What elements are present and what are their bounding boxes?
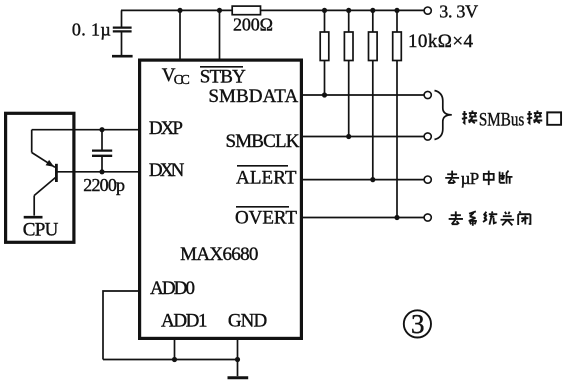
svg-text:ADD1: ADD1 [161,311,208,332]
terminal: OVERT [424,214,431,221]
ground (GND pin) [228,376,249,379]
char 断 [500,171,513,184]
junction: SMBDATA / R2 [322,92,327,97]
junction: rail to R4 [370,8,375,13]
wire: STBY drop to pin [219,10,221,59]
wire: SMBDATA to terminal [302,94,425,96]
svg-text:SMBCLK: SMBCLK [226,131,300,152]
resistor R1 200Ω (series in rail) [232,6,260,15]
junction: rail to R3 [346,8,351,13]
wire: DXN from Q1 base to pin [56,171,139,173]
resistor R2 10kΩ (pull-up SMBDATA) [320,10,329,95]
pin label ALERT (with overbar) [236,166,297,189]
svg-text:CPU: CPU [23,220,59,241]
svg-text:µP: µP [461,169,480,188]
label: 去系统关闭 (to system shutdown) [449,211,531,225]
wire: OVERT to terminal [302,217,425,219]
svg-text:3: 3 [411,309,425,339]
terminal: 3.3V [424,7,431,14]
wire: top supply rail right segment [261,9,425,11]
CPU box [6,113,74,242]
pin label VCC [162,65,190,87]
label: 接SMBus接口 (to SMBus interface) [462,110,561,131]
junction: ALERT / R4 [370,177,375,182]
char 关 [501,212,515,226]
char 系 [469,211,477,225]
char 口 [547,112,561,124]
wire: ADD1 drop [174,338,176,359]
junction: STBY tap on rail [217,8,222,13]
op-amp/IC U1 MAX6680 body [140,60,302,338]
svg-text:MAX6680: MAX6680 [180,244,258,265]
wire: ADD0 strap [103,291,140,360]
brace: SMBus port group [435,91,452,140]
pin label OVERT (with overbar) [235,207,297,229]
svg-text:10kΩ×4: 10kΩ×4 [408,31,474,52]
pin label STBY (with overbar) [200,67,246,88]
capacitor C2 2200p [92,130,112,172]
junction: C2 bottom on DXN [99,169,104,174]
svg-text:SMBus: SMBus [479,110,524,131]
junction: SMBCLK / R3 [346,134,351,139]
svg-text:200Ω: 200Ω [233,15,273,35]
wire: bottom strap rail [103,359,238,361]
svg-text:ADD0: ADD0 [150,278,195,299]
svg-text:DXP: DXP [149,118,183,139]
resistor R5 10kΩ (pull-up OVERT) [393,10,402,217]
junction: OVERT / R5 [394,215,399,220]
transistor Q1 (CPU thermal diode) [32,130,57,216]
ground (under C1) [112,55,133,58]
svg-text:STBY: STBY [200,67,246,88]
junction: rail to R2 [322,8,327,13]
wire: top supply rail left segment [121,9,232,11]
char 去 [445,171,459,183]
resistor R3 10kΩ (pull-up SMBCLK) [344,10,353,136]
wire: Vcc drop to pin [179,10,181,59]
wire: GND drop [237,338,239,376]
svg-text:2200p: 2200p [83,175,125,195]
ground (Q1 emitter) [24,216,43,219]
char 统 [483,211,497,224]
terminal: SMBCLK [424,133,431,140]
svg-text:0. 1µ: 0. 1µ [72,19,111,39]
char 接 [462,110,477,123]
junction: ADD1 / strap [172,357,177,362]
junction: C2 top on DXP [99,127,104,132]
terminal: ALERT [424,176,431,183]
resistor R4 10kΩ (pull-up ALERT) [369,10,378,179]
svg-text:GND: GND [228,311,267,332]
wire: SMBCLK to terminal [302,136,425,138]
junction: Vcc tap on rail [177,8,182,13]
svg-text:3. 3V: 3. 3V [439,2,478,22]
label: 去µP中断 (to µP interrupt) [445,169,512,188]
capacitor C1 0.1µF (bypass) [113,10,132,55]
char 去 [449,211,463,224]
char 接 (second) [527,110,542,123]
junction: GND / strap [235,357,240,362]
char 中 [484,171,494,186]
svg-text:OVERT: OVERT [235,208,297,229]
terminal: SMBDATA [424,91,431,98]
svg-text:CC: CC [174,72,190,87]
char 闭 [518,211,530,225]
wire: DXP from Q1 to pin [32,129,140,131]
figure number 3 (circled) [404,309,431,339]
junction: rail to R5 [394,8,399,13]
svg-text:DXN: DXN [149,160,185,181]
svg-text:SMBDATA: SMBDATA [208,86,298,107]
svg-text:ALERT: ALERT [236,168,297,189]
wire: ALERT to terminal [302,179,425,181]
